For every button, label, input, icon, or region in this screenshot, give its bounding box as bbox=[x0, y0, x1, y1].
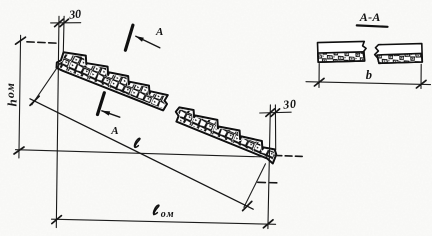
label l (script ell) on slope bbox=[134, 138, 139, 147]
b dimension right extension bbox=[420, 64, 422, 88]
l_om left tick bbox=[52, 216, 62, 224]
extension line short left (tread nose) bbox=[62, 16, 65, 52]
b dimension left extension bbox=[318, 64, 320, 88]
svg-text:A-A: A-A bbox=[359, 10, 381, 24]
30 right left tick bbox=[266, 109, 275, 117]
slope dimension l: line bbox=[30, 99, 253, 209]
svg-text:30: 30 bbox=[281, 96, 297, 111]
right extension line short (march end face) bbox=[274, 105, 276, 150]
lower level line (solid) bbox=[16, 150, 267, 157]
right extension line long (to l_om) bbox=[268, 105, 271, 229]
A-A right slab outline bbox=[375, 44, 423, 64]
30 top right tick bbox=[60, 19, 69, 27]
A-A left slab outline bbox=[318, 41, 367, 62]
b right tick bbox=[416, 80, 426, 88]
dimension 30 right line bbox=[260, 111, 292, 114]
30 top left tick bbox=[55, 19, 64, 27]
dimension l_om bottom line bbox=[52, 219, 276, 224]
h_om bottom tick bbox=[14, 147, 24, 154]
b dimension line bbox=[306, 82, 431, 85]
dashed upper landing level line bbox=[27, 42, 58, 43]
extension line long left (through step edge, to l_om) bbox=[56, 16, 59, 227]
label l_om bbox=[153, 205, 158, 215]
short dashed level mark at march toe bbox=[258, 181, 279, 184]
slope l right tick bbox=[243, 201, 252, 210]
b left tick bbox=[314, 78, 324, 86]
svg-text:A: A bbox=[110, 125, 118, 137]
section A-A underline bbox=[357, 25, 388, 26]
section mark A upper: thick stroke bbox=[125, 25, 132, 50]
slope l left tick bbox=[30, 96, 39, 105]
30 right right tick bbox=[271, 109, 280, 117]
h_om top tick bbox=[16, 37, 26, 44]
march lower segment (stepped, concrete) bbox=[176, 107, 276, 163]
svg-text:30: 30 bbox=[67, 7, 81, 22]
section mark A lower: arrow bbox=[102, 111, 120, 117]
section mark A upper: arrow bbox=[136, 36, 160, 48]
l_om right tick bbox=[263, 220, 273, 228]
dimension h_om vertical line bbox=[19, 35, 21, 158]
A-A left slab hatched band bbox=[318, 52, 365, 62]
slope dimension l: right extension line bbox=[244, 164, 266, 208]
dimension 30 top line bbox=[51, 22, 81, 24]
A-A right slab hatched band bbox=[377, 53, 422, 63]
lower level dashed continuation bbox=[275, 156, 305, 157]
svg-text:b: b bbox=[366, 68, 372, 82]
section mark A lower: thick stroke bbox=[98, 93, 105, 115]
march upper segment (stepped, concrete) bbox=[57, 52, 168, 110]
slope dimension l: left extension line bbox=[32, 63, 60, 105]
svg-text:A: A bbox=[155, 26, 163, 38]
svg-text:ом: ом bbox=[161, 209, 175, 220]
